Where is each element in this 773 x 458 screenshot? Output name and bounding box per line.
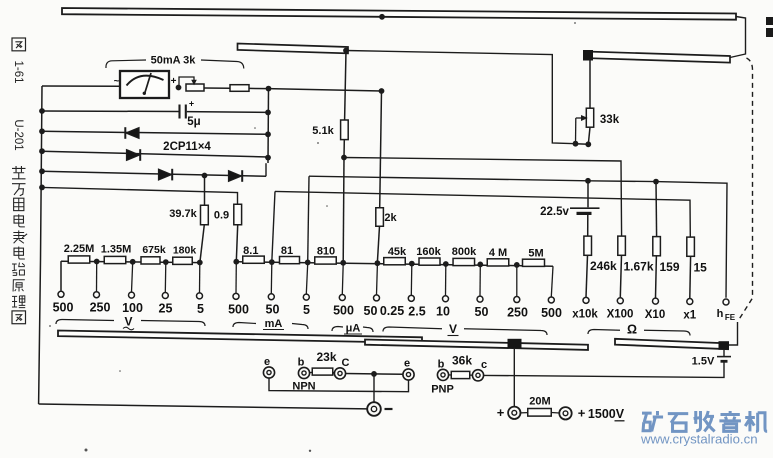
svg-text:250: 250 [507,306,528,320]
svg-text:FE: FE [725,313,736,322]
svg-text:180k: 180k [173,245,197,257]
svg-text:45k: 45k [388,246,407,258]
svg-text:36k: 36k [452,354,472,368]
svg-text:500: 500 [333,304,354,318]
svg-text:50: 50 [475,305,489,319]
svg-text:X100: X100 [607,309,634,321]
svg-text:2CP11×4: 2CP11×4 [163,141,211,153]
svg-text:b: b [438,359,445,371]
svg-text:4 M: 4 M [489,247,507,259]
svg-text:81: 81 [281,245,293,257]
svg-text:5μ: 5μ [187,116,200,128]
svg-text:1.5V: 1.5V [692,356,715,368]
svg-text:2k: 2k [384,212,397,224]
svg-text:2.5: 2.5 [408,304,425,318]
svg-text:5: 5 [303,303,310,317]
svg-text:μA: μA [346,323,361,335]
svg-text:50mA 3k: 50mA 3k [151,55,197,67]
svg-text:+: + [189,99,194,109]
svg-text:500: 500 [228,302,249,316]
svg-text:23k: 23k [316,350,336,364]
svg-text:5.1k: 5.1k [312,125,334,137]
svg-text:X10: X10 [645,309,665,321]
svg-text:0.25: 0.25 [380,304,404,318]
svg-text:+: + [578,406,586,421]
svg-text:800k: 800k [452,246,477,258]
svg-text:mA: mA [265,318,283,330]
svg-text:+: + [171,76,177,87]
svg-text:~: ~ [114,76,120,87]
svg-text:15: 15 [694,261,708,275]
svg-text:8.1: 8.1 [243,245,258,257]
svg-text:160k: 160k [416,246,441,258]
svg-text:500: 500 [53,300,74,314]
svg-text:50: 50 [266,303,280,317]
svg-text:159: 159 [660,260,680,274]
svg-text:1500V: 1500V [588,407,625,421]
svg-text:e: e [264,356,270,368]
svg-text:V: V [124,315,132,329]
svg-text:25: 25 [159,302,173,316]
svg-text:50: 50 [364,304,378,318]
svg-text:810: 810 [317,246,335,258]
svg-text:e: e [404,358,410,370]
svg-text:5M: 5M [528,247,543,259]
svg-text:500: 500 [541,306,562,320]
svg-text:10: 10 [436,305,450,319]
svg-text:246k: 246k [590,259,617,273]
svg-text:1-61: 1-61 [12,60,24,83]
svg-text:c: c [481,359,487,371]
svg-text:1.67k: 1.67k [624,260,654,274]
svg-text:h: h [717,308,724,320]
svg-text:675k: 675k [142,244,166,256]
svg-text:www.crystalradio.cn: www.crystalradio.cn [640,432,758,447]
svg-text:+: + [497,405,505,420]
svg-text:22.5v: 22.5v [540,206,569,218]
svg-text:100: 100 [122,301,143,315]
svg-text:PNP: PNP [431,384,454,396]
svg-text:Ω: Ω [627,323,637,337]
svg-text:20M: 20M [529,396,550,408]
svg-text:V: V [449,322,457,336]
svg-text:5: 5 [197,302,204,316]
svg-text:U-201: U-201 [12,119,24,150]
svg-text:2.25M: 2.25M [64,243,95,255]
svg-text:0.9: 0.9 [214,210,229,222]
svg-text:x1: x1 [683,310,696,322]
svg-text:39.7k: 39.7k [169,208,197,220]
svg-text:33k: 33k [600,114,620,126]
svg-text:C: C [342,357,350,369]
svg-text:250: 250 [90,301,111,315]
svg-text:x10k: x10k [572,309,598,321]
svg-text:b: b [298,357,305,369]
svg-text:1.35M: 1.35M [101,244,132,256]
